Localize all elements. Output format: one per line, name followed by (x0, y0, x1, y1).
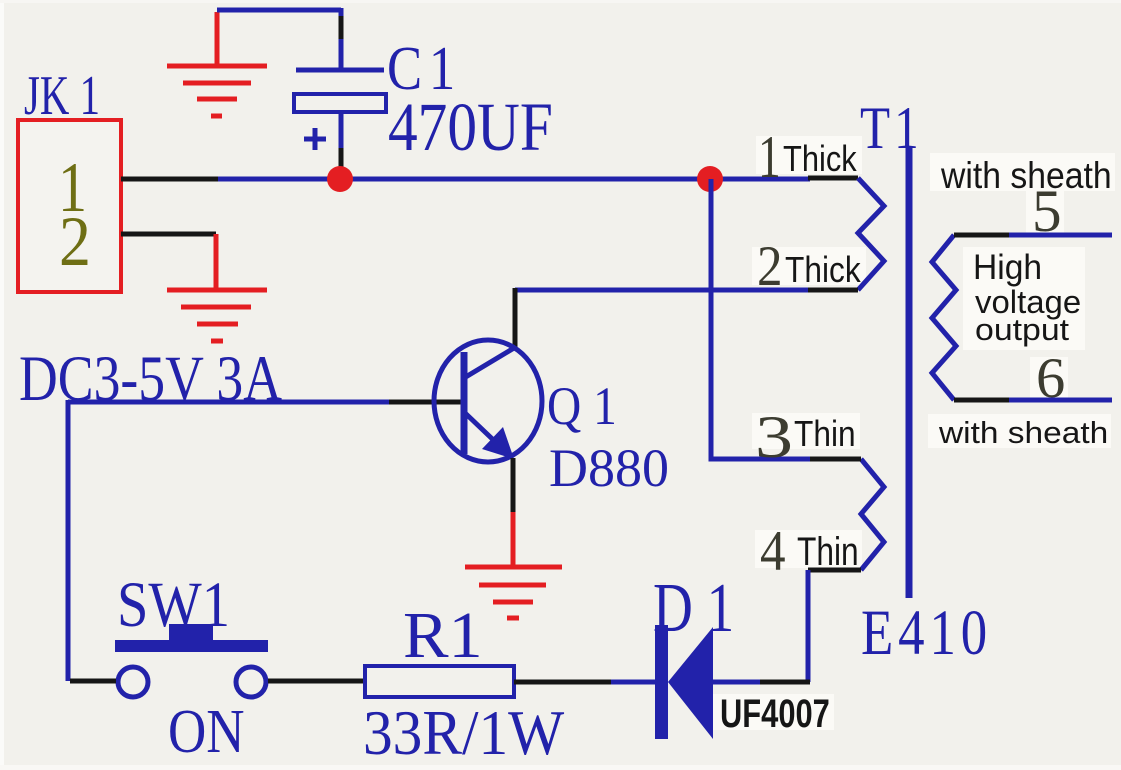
wire left vertical (66, 400, 71, 681)
svg-text:Thin: Thin (797, 528, 859, 574)
wire top loop (217, 8, 341, 71)
label High voltage output (973, 248, 1081, 346)
wire emitter black (511, 458, 516, 514)
wire R1 to D1 black (514, 680, 611, 685)
svg-text:T1: T1 (860, 94, 923, 161)
svg-text:UF4007: UF4007 (720, 691, 830, 736)
svg-text:1: 1 (758, 124, 781, 190)
wire 6 blue (1009, 398, 1112, 403)
ground G2 under pin2 (167, 234, 267, 341)
junction node dot2 (697, 166, 723, 192)
svg-text:with sheath: with sheath (938, 415, 1108, 450)
wire rail black to winding 1 (808, 176, 858, 181)
wire pin1 black (121, 177, 218, 182)
wire switch to R1 black (268, 679, 365, 684)
wire diode to winding 4 vertical (806, 570, 811, 682)
svg-text:D880: D880 (549, 438, 669, 498)
wire R1 to D1 blue (611, 680, 656, 685)
capacitor C1 (294, 70, 386, 170)
ground G1 top-left (167, 12, 267, 116)
svg-text:JK 1: JK 1 (24, 64, 100, 127)
connector JK1 (18, 120, 121, 292)
svg-text:33R/1W: 33R/1W (363, 698, 565, 768)
wire 2 black to winding (808, 288, 858, 293)
ground G3 under Q1 (465, 512, 562, 618)
svg-text:2: 2 (757, 235, 783, 298)
svg-text:ON: ON (168, 698, 245, 766)
transformer T1 primary winding 1-2 (858, 178, 884, 290)
wire 4 black (808, 568, 861, 573)
wire 5 blue (1009, 233, 1112, 238)
svg-text:470UF: 470UF (388, 89, 553, 165)
svg-text:6: 6 (1036, 348, 1065, 410)
wire base black (389, 400, 462, 405)
wire from dot2 down to winding 3 (711, 179, 810, 459)
switch SW1 (115, 624, 268, 697)
transformer T1 winding 3-4 (861, 459, 884, 570)
wire base blue (68, 400, 389, 405)
wire D1 right black (760, 680, 810, 685)
wire collector vertical black (513, 288, 518, 348)
transformer T1 secondary winding 5-6 (932, 235, 956, 400)
wire 6 black (954, 398, 1009, 403)
wire bottom left black (70, 679, 116, 684)
transformer T1 core (906, 147, 913, 598)
svg-text:output: output (975, 313, 1069, 347)
svg-text:High: High (973, 248, 1042, 287)
svg-text:D 1: D 1 (653, 569, 734, 647)
svg-text:Thick: Thick (785, 250, 861, 290)
wire pin2 black (121, 232, 216, 237)
svg-text:SW1: SW1 (117, 569, 230, 641)
svg-text:Thin: Thin (794, 414, 856, 454)
wire main rail blue (218, 177, 810, 182)
svg-text:E410: E410 (861, 596, 992, 668)
wire D1 right blue (713, 680, 760, 685)
svg-text:R1: R1 (403, 598, 483, 672)
svg-text:with sheath: with sheath (940, 155, 1112, 197)
resistor R1 (365, 666, 514, 697)
svg-text:3: 3 (755, 404, 793, 471)
junction node dot1 (327, 166, 353, 192)
svg-text:2: 2 (59, 202, 91, 281)
diode D1 (655, 625, 713, 739)
wire 3 black (810, 457, 861, 462)
wire 5 black (954, 233, 1009, 238)
svg-text:Q 1: Q 1 (547, 376, 617, 436)
wire 2 blue (515, 288, 810, 293)
svg-text:4: 4 (760, 520, 786, 583)
svg-text:Thick: Thick (783, 140, 857, 180)
transistor Q1 (434, 340, 542, 462)
